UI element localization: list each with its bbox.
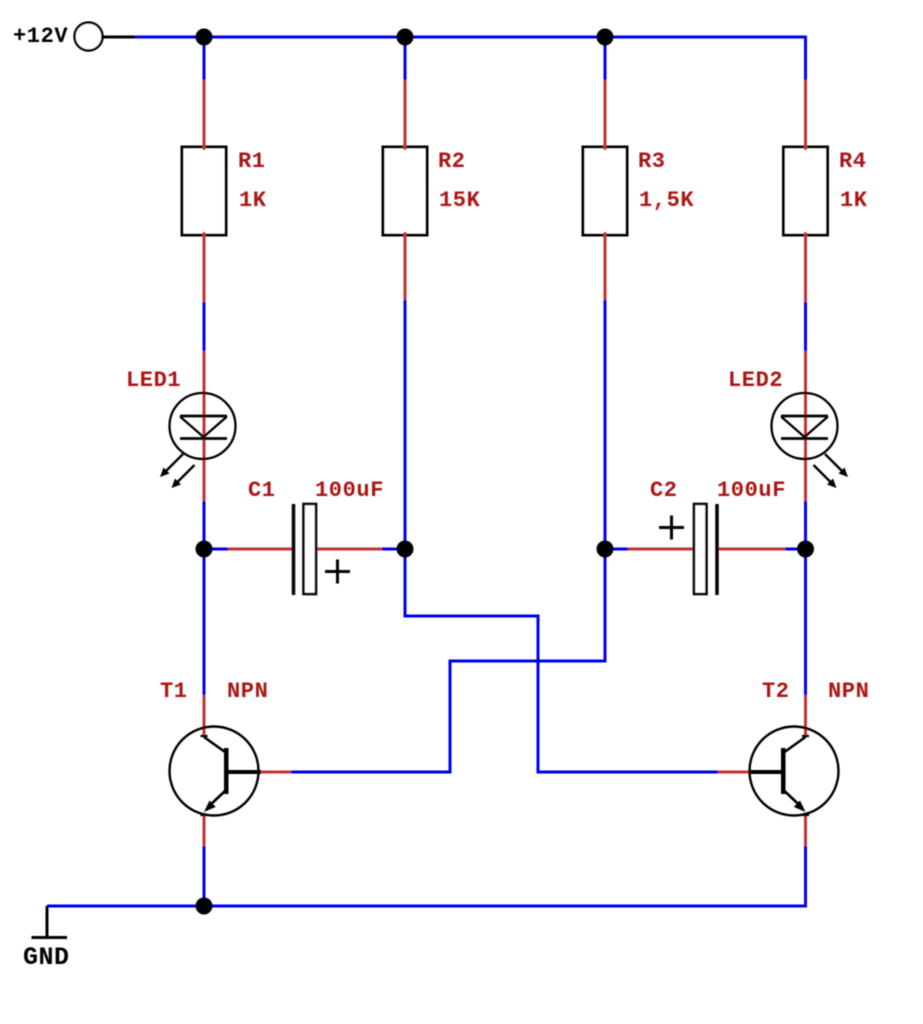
svg-text:LED2: LED2 — [728, 368, 783, 393]
svg-text:NPN: NPN — [828, 679, 869, 704]
svg-text:1,5K: 1,5K — [639, 188, 694, 213]
svg-text:C2: C2 — [650, 478, 678, 503]
svg-text:R1: R1 — [238, 149, 266, 174]
svg-text:T2: T2 — [762, 679, 790, 704]
svg-text:NPN: NPN — [227, 679, 268, 704]
svg-text:C1: C1 — [248, 478, 276, 503]
svg-text:R2: R2 — [438, 149, 466, 174]
svg-text:LED1: LED1 — [126, 368, 181, 393]
svg-text:T1: T1 — [160, 679, 188, 704]
svg-text:15K: 15K — [439, 188, 481, 213]
svg-text:1K: 1K — [239, 188, 267, 213]
svg-text:100uF: 100uF — [717, 478, 786, 503]
svg-text:R3: R3 — [638, 149, 666, 174]
svg-text:100uF: 100uF — [315, 478, 384, 503]
svg-text:R4: R4 — [839, 149, 867, 174]
svg-text:1K: 1K — [840, 188, 868, 213]
svg-text:GND: GND — [23, 943, 70, 972]
svg-text:+12V: +12V — [13, 24, 68, 49]
